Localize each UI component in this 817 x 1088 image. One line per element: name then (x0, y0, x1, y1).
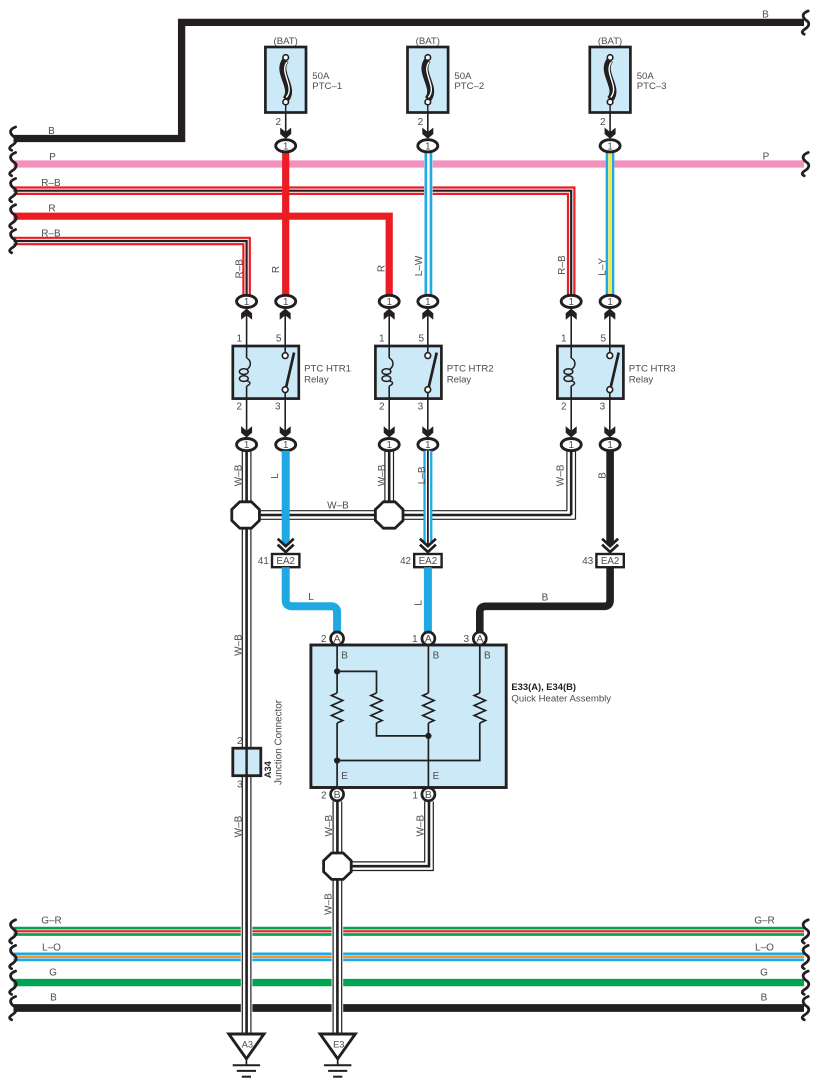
wire R (fuse PTC-1 output) (282, 152, 289, 296)
wire B bus bottom (14, 1004, 805, 1012)
svg-text:W–B: W–B (234, 815, 245, 837)
label B vertical relay3 (597, 472, 608, 479)
wire G-R bus (14, 928, 805, 934)
svg-text:2: 2 (321, 634, 327, 645)
label G-R right (754, 916, 775, 927)
resistor heater element 2 (371, 693, 382, 723)
heater internal wire R2 bottom to center (377, 723, 429, 736)
label P left (49, 152, 56, 163)
svg-text:2: 2 (237, 736, 243, 747)
label B left bottom (50, 993, 57, 1004)
svg-text:A34: A34 (263, 760, 273, 778)
label L above horizontal (308, 592, 314, 603)
connector 1 below relay3 pin2 (561, 439, 581, 452)
svg-text:R–B: R–B (234, 259, 245, 279)
svg-text:(BAT): (BAT) (416, 36, 440, 47)
ground E3 (320, 1034, 355, 1077)
connector 1 below relay3 pin3 (600, 439, 620, 452)
svg-text:B: B (597, 472, 608, 479)
svg-text:1: 1 (568, 440, 573, 451)
heater internal wire from 3A (479, 646, 481, 694)
wire crossing halo A3 (241, 921, 253, 1015)
break symbol left R (10, 205, 16, 228)
wire W-B A34 to ground A3 (242, 776, 251, 1034)
svg-text:2: 2 (600, 117, 606, 128)
connector EA2 43 (582, 539, 624, 567)
svg-text:5: 5 (276, 334, 282, 345)
svg-text:Quick Heater Assembly: Quick Heater Assembly (511, 693, 611, 704)
svg-text:B: B (542, 592, 549, 603)
wire W-B J3 to ground E3 (333, 879, 342, 1034)
svg-text:E: E (341, 771, 348, 782)
svg-text:B: B (762, 9, 769, 20)
svg-text:5: 5 (418, 334, 424, 345)
svg-text:E3: E3 (333, 1040, 344, 1050)
label R-B left upper (41, 178, 61, 189)
resistor heater element 4 (474, 693, 485, 723)
svg-text:5: 5 (600, 334, 606, 345)
connector 1 below relay1 pin3 (276, 439, 296, 452)
heater internal bottom tie (337, 723, 480, 761)
svg-text:B: B (425, 790, 432, 801)
label R vertical (fuse 1 drop) (271, 266, 282, 273)
connector 1 above relay1 pin1 (237, 295, 257, 308)
wire G bus (14, 979, 805, 986)
svg-text:41: 41 (258, 556, 269, 567)
label L vertical (270, 473, 281, 479)
svg-text:Junction Connector: Junction Connector (274, 699, 285, 785)
break symbol right B (802, 11, 808, 34)
label W-B vertical relay3 (556, 464, 567, 486)
wire P (pink bus) (14, 160, 805, 167)
connector 1 above relay3 pin1 (561, 295, 581, 308)
wire W-B heater 1B to junction J3 (351, 801, 433, 870)
connector 1 above relay1 pin5 (276, 295, 296, 308)
heater internal branch top (337, 671, 376, 693)
svg-text:1: 1 (283, 440, 288, 451)
wire L-W (fuse PTC-2 output) (426, 152, 431, 296)
ground A3 (229, 1034, 264, 1077)
svg-text:3: 3 (237, 780, 243, 791)
break symbol left R-B lower (10, 230, 16, 253)
wire W-B relay3 pin2 drop (567, 451, 576, 520)
svg-text:2: 2 (321, 790, 327, 801)
junction J3 (octagon) (324, 853, 352, 879)
label E33(A), E34(B) (511, 681, 576, 692)
break symbol left bottom G (10, 971, 16, 994)
heater pin 2B (321, 788, 344, 802)
wire L relay1 pin3 to EA2 41 (282, 451, 290, 546)
svg-text:43: 43 (582, 556, 593, 567)
svg-text:W–B: W–B (234, 464, 245, 486)
break symbol right P (802, 153, 808, 176)
svg-text:PTC HTR2: PTC HTR2 (447, 363, 494, 374)
break symbol left bottom B (10, 997, 16, 1020)
label W-B vertical below A34 (234, 815, 245, 837)
svg-text:W–B: W–B (327, 500, 349, 511)
svg-text:B: B (341, 651, 348, 662)
wire B EA2 43 to heater pin 3A (480, 567, 610, 632)
svg-text:R–B: R–B (41, 178, 61, 189)
break symbol left bottom G-R (10, 920, 16, 943)
connector 1 below relay2 pin3 (418, 439, 438, 452)
label B pin 1A (433, 651, 440, 662)
svg-text:PTC HTR3: PTC HTR3 (629, 363, 676, 374)
svg-text:P: P (49, 152, 56, 163)
svg-text:W–B: W–B (416, 815, 427, 837)
heater pin 1B (412, 788, 435, 802)
label B left (48, 126, 55, 137)
connector A34 junction connector (233, 699, 285, 790)
label L-O right (755, 942, 774, 953)
label W-B vertical relay1 (234, 464, 245, 486)
heater pin 1A (412, 632, 435, 645)
svg-text:A: A (476, 634, 483, 645)
label L-B vertical (417, 466, 428, 484)
label R vertical (relay 2) (377, 265, 388, 272)
label W-B vertical heater 1B (416, 815, 427, 837)
wire R (red bus to relay 2 pin 1) (14, 216, 390, 295)
svg-text:A: A (334, 634, 341, 645)
node junction dot 1 (334, 668, 340, 674)
svg-text:B: B (48, 126, 55, 137)
fuse PTC-3 50A (590, 36, 667, 152)
svg-text:(BAT): (BAT) (598, 36, 622, 47)
svg-text:3: 3 (464, 634, 470, 645)
junction J1 (octagon) (232, 502, 260, 528)
svg-text:L–B: L–B (417, 466, 428, 484)
svg-text:B: B (761, 993, 768, 1004)
resistor heater element 3 (423, 693, 434, 723)
svg-text:2: 2 (236, 401, 242, 412)
heater pin 3A (464, 632, 487, 645)
svg-text:PTC–2: PTC–2 (454, 81, 484, 92)
wire W-B horizontal tie J1-J2-relay3 (246, 511, 576, 520)
label R-B vertical (234, 259, 245, 279)
svg-text:1: 1 (283, 141, 288, 152)
break symbol left bottom L-O (10, 945, 16, 968)
svg-text:1: 1 (386, 297, 391, 308)
svg-text:E: E (433, 771, 440, 782)
svg-text:42: 42 (400, 556, 411, 567)
label B right top (762, 9, 769, 20)
svg-text:R: R (48, 203, 55, 214)
svg-text:EA2: EA2 (419, 556, 438, 567)
label W-B vertical heater 2B (324, 815, 335, 837)
svg-text:2: 2 (418, 117, 424, 128)
break symbol left B (10, 127, 16, 150)
svg-text:1: 1 (425, 141, 430, 152)
svg-text:1: 1 (607, 141, 612, 152)
label W-B vertical above A34 (234, 634, 245, 656)
svg-text:W–B: W–B (556, 464, 567, 486)
svg-text:R: R (377, 265, 388, 272)
break symbol left P (10, 153, 16, 176)
label L-W vertical (414, 255, 425, 276)
heater assembly box E33/E34 (311, 645, 506, 788)
node junction dot 2 (425, 733, 431, 739)
break symbol right bottom L-O (802, 945, 808, 968)
wire L EA2 41 to heater pin 2A (286, 567, 337, 632)
svg-text:A3: A3 (242, 1040, 253, 1050)
label L-Y vertical (598, 258, 609, 276)
label W-B vertical above E3 (323, 893, 334, 915)
svg-text:G: G (49, 968, 57, 979)
wire W-B heater 2B to junction J3 (333, 801, 342, 853)
svg-text:W–B: W–B (324, 815, 335, 837)
wire B relay3 pin3 to EA2 43 (606, 451, 614, 546)
svg-text:L–W: L–W (414, 255, 425, 276)
connector 1 above relay3 pin5 (600, 295, 620, 308)
label B pin 2A (341, 651, 348, 662)
fuse PTC-2 50A (408, 36, 485, 152)
svg-text:W–B: W–B (234, 634, 245, 656)
svg-text:1: 1 (379, 334, 385, 345)
break symbol right bottom G-R (802, 920, 808, 943)
svg-text:1: 1 (386, 440, 391, 451)
svg-text:PTC–1: PTC–1 (312, 81, 342, 92)
heater pin 2A (321, 632, 344, 645)
fuse PTC-1 50A (265, 36, 342, 152)
svg-text:2: 2 (561, 401, 567, 412)
heater internal wire R1 bottom to 2B (336, 723, 338, 787)
svg-text:1: 1 (283, 297, 288, 308)
svg-text:L: L (308, 592, 314, 603)
svg-text:G–R: G–R (754, 916, 775, 927)
svg-text:B: B (334, 790, 341, 801)
connector 1 above relay2 pin1 (379, 295, 399, 308)
svg-text:1: 1 (425, 297, 430, 308)
svg-text:3: 3 (418, 401, 424, 412)
svg-text:1: 1 (236, 334, 242, 345)
svg-text:1: 1 (568, 297, 573, 308)
svg-text:G–R: G–R (41, 916, 62, 927)
svg-text:L: L (414, 600, 425, 606)
svg-text:1: 1 (561, 334, 567, 345)
label W-B horizontal (327, 500, 349, 511)
wire W-B relay1 pin2 to junction J1 (242, 451, 251, 503)
svg-text:W–B: W–B (323, 893, 334, 915)
break symbol right bottom B (802, 997, 808, 1020)
wire L-B relay2 pin3 to EA2 42 (423, 451, 432, 546)
label L-O left (42, 942, 61, 953)
connector 1 above relay2 pin5 (418, 295, 438, 308)
connector 1 below relay1 pin2 (237, 439, 257, 452)
label Quick Heater Assembly (511, 693, 611, 704)
wire L-Y (fuse PTC-3 output) (607, 152, 613, 296)
label E pin 1B (433, 771, 440, 782)
svg-text:EA2: EA2 (601, 556, 620, 567)
resistor heater element 1 (332, 693, 343, 723)
svg-text:L: L (270, 473, 281, 479)
node junction dot 3 (334, 757, 340, 763)
heater internal wire from 2A (336, 646, 338, 694)
svg-text:A: A (425, 634, 432, 645)
svg-text:R–B: R–B (41, 228, 61, 239)
svg-text:1: 1 (607, 440, 612, 451)
svg-text:2: 2 (379, 401, 385, 412)
label R left (48, 203, 55, 214)
svg-text:PTC–3: PTC–3 (637, 81, 667, 92)
break symbol right bottom G (802, 971, 808, 994)
svg-text:2: 2 (276, 117, 282, 128)
label G-R left (41, 916, 62, 927)
wire L-O bus (14, 954, 805, 960)
svg-text:1: 1 (412, 790, 418, 801)
svg-text:B: B (433, 651, 440, 662)
svg-text:L–O: L–O (42, 942, 61, 953)
label E pin 2B (341, 771, 348, 782)
svg-text:1: 1 (412, 634, 418, 645)
svg-text:B: B (50, 993, 57, 1004)
label B pin 3A (484, 651, 491, 662)
wire W-B relay2 pin2 to junction J2 (385, 451, 394, 503)
svg-text:W–B: W–B (377, 464, 388, 486)
svg-text:1: 1 (607, 297, 612, 308)
svg-text:Relay: Relay (629, 374, 654, 385)
wire R-B (upper red/black bus to relay 3 pin 1) (14, 188, 575, 295)
svg-text:(BAT): (BAT) (274, 36, 298, 47)
svg-text:1: 1 (244, 297, 249, 308)
connector EA2 42 (400, 539, 442, 567)
svg-text:1: 1 (244, 440, 249, 451)
label B right bottom (761, 993, 768, 1004)
svg-text:B: B (484, 651, 491, 662)
svg-text:R–B: R–B (557, 255, 568, 275)
svg-text:3: 3 (600, 401, 606, 412)
connector EA2 41 (258, 539, 300, 567)
label G left (49, 968, 57, 979)
wire W-B J1 to A34 (242, 528, 251, 748)
label B above horizontal (542, 592, 549, 603)
svg-text:G: G (760, 968, 768, 979)
svg-text:Relay: Relay (304, 374, 329, 385)
connector 1 below relay2 pin2 (379, 439, 399, 452)
label R-B vertical (relay 3) (557, 255, 568, 275)
wire B (battery feed, top) (14, 22, 805, 138)
svg-text:L–O: L–O (755, 942, 774, 953)
heater internal wire R3/center to 1B (427, 723, 429, 787)
label W-B vertical relay2 (377, 464, 388, 486)
heater internal wire from 1A (427, 646, 429, 694)
relay U3 PTC HTR3 (557, 309, 675, 438)
break symbol left R-B upper (10, 179, 16, 202)
svg-text:PTC HTR1: PTC HTR1 (304, 363, 351, 374)
label L vertical lower (414, 600, 425, 606)
svg-text:E33(A), E34(B): E33(A), E34(B) (511, 681, 576, 692)
junction J2 (octagon) (375, 502, 403, 528)
wire crossing halo E3 (332, 921, 344, 1015)
label R-B left lower (41, 228, 61, 239)
relay U2 PTC HTR2 (375, 309, 493, 438)
wire R-B (lower red/black bus to relay 1 pin 1) (14, 238, 250, 295)
svg-text:Relay: Relay (447, 374, 472, 385)
svg-text:P: P (763, 152, 770, 163)
relay U1 PTC HTR1 (233, 309, 351, 438)
svg-text:3: 3 (275, 401, 281, 412)
svg-text:R: R (271, 266, 282, 273)
label P right (763, 152, 770, 163)
svg-text:1: 1 (425, 440, 430, 451)
svg-text:EA2: EA2 (276, 556, 295, 567)
svg-text:L–Y: L–Y (598, 258, 609, 276)
wire L EA2 42 to heater pin 1A (424, 567, 432, 632)
label G right (760, 968, 768, 979)
